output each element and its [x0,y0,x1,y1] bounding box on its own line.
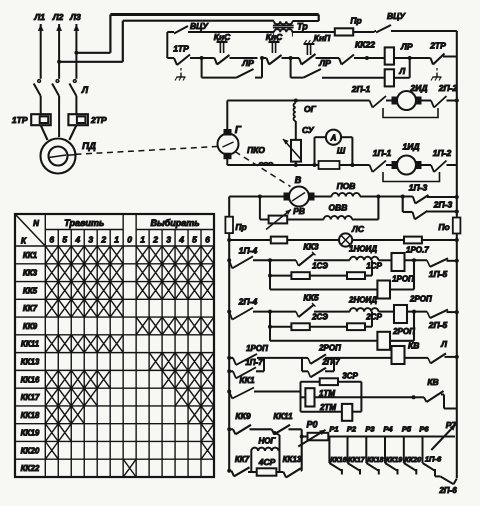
svg-text:К: К [21,236,27,246]
svg-text:Р5: Р5 [402,425,412,434]
svg-text:РВ: РВ [293,206,305,216]
svg-text:1ИД: 1ИД [403,142,420,152]
svg-text:Пр: Пр [350,16,361,26]
svg-text:Р6: Р6 [419,425,429,434]
svg-text:2П-1: 2П-1 [351,84,371,94]
svg-text:1ТР: 1ТР [173,44,189,54]
svg-text:КК16: КК16 [21,375,40,384]
svg-text:1: 1 [140,235,145,245]
svg-text:КК7: КК7 [23,304,38,313]
svg-text:ВЦУ: ВЦУ [387,11,406,21]
svg-text:Тр: Тр [297,22,308,32]
svg-text:Г: Г [235,125,242,136]
svg-text:КК1: КК1 [239,375,254,385]
svg-text:ВЦУ: ВЦУ [190,21,209,31]
svg-text:2: 2 [152,235,158,245]
svg-text:КК19: КК19 [21,429,40,438]
svg-text:Р3: Р3 [365,425,375,434]
svg-text:Р0: Р0 [306,420,317,430]
svg-text:0: 0 [127,235,132,245]
svg-text:2ИД: 2ИД [410,83,428,93]
svg-text:ПКО: ПКО [247,145,265,155]
svg-text:КК3: КК3 [23,269,38,278]
svg-text:4: 4 [74,235,80,245]
svg-text:КК13: КК13 [21,358,40,367]
svg-text:Р4: Р4 [383,425,393,434]
svg-text:НОГ: НОГ [259,437,277,446]
svg-text:КК19: КК19 [386,457,402,464]
svg-text:КК9: КК9 [235,411,250,421]
svg-text:4: 4 [178,235,184,245]
svg-text:1НОИД: 1НОИД [349,245,377,254]
svg-text:Пр: Пр [235,222,246,232]
svg-text:1РОП: 1РОП [392,275,414,284]
svg-text:N: N [33,219,39,228]
svg-text:Р1: Р1 [329,425,338,434]
svg-text:1РОП: 1РОП [246,344,268,353]
svg-text:Ш: Ш [337,146,346,156]
svg-text:1П-1: 1П-1 [373,148,392,158]
svg-text:2: 2 [100,235,106,245]
svg-text:2П-5: 2П-5 [428,320,448,330]
svg-text:6: 6 [49,235,54,245]
svg-text:ПД: ПД [82,141,96,152]
svg-text:2СЭ: 2СЭ [311,313,328,322]
svg-text:КК20: КК20 [405,457,421,464]
svg-text:2РОП: 2РОП [409,295,432,304]
svg-text:1П-3: 1П-3 [409,183,428,193]
svg-text:Л: Л [440,339,447,349]
svg-text:4СР: 4СР [258,457,276,467]
svg-text:КК7: КК7 [235,455,250,464]
svg-text:2НОИД: 2НОИД [348,296,377,305]
svg-text:ЛР: ЛР [241,58,254,68]
svg-text:Л: Л [398,66,405,76]
svg-text:2П-3: 2П-3 [433,200,453,210]
svg-text:Л2: Л2 [52,12,64,22]
svg-text:КнП: КнП [314,33,331,43]
svg-text:В: В [295,175,302,185]
svg-text:КК9: КК9 [23,322,38,331]
svg-text:КК13: КК13 [283,455,302,464]
svg-text:5: 5 [192,235,197,245]
svg-text:КнС: КнС [214,32,231,42]
svg-text:КВ: КВ [408,341,419,351]
svg-text:1П-6: 1П-6 [425,455,442,464]
svg-text:ОВВ: ОВВ [329,203,348,213]
svg-text:Л1: Л1 [33,12,45,22]
svg-text:Р2: Р2 [347,425,357,434]
svg-text:КК3: КК3 [303,242,318,252]
svg-text:СУ: СУ [302,125,315,135]
svg-text:КВ: КВ [427,377,438,387]
svg-text:КК11: КК11 [21,340,40,349]
svg-text:2П-4: 2П-4 [238,297,258,307]
svg-text:2СР: 2СР [365,313,382,322]
svg-text:1РО.7: 1РО.7 [406,246,429,255]
svg-text:КК5: КК5 [23,286,38,295]
svg-text:1П-7: 1П-7 [245,358,263,367]
svg-text:КК16: КК16 [330,457,346,464]
svg-text:6: 6 [205,235,210,245]
svg-text:ЛР: ЛР [318,58,331,68]
svg-text:3: 3 [166,235,171,245]
svg-text:2РОП: 2РОП [392,327,415,336]
svg-text:КК18: КК18 [367,457,383,464]
svg-text:КК17: КК17 [348,457,365,464]
svg-text:КК18: КК18 [21,411,40,420]
svg-text:2П-2: 2П-2 [438,83,458,93]
svg-text:1П-4: 1П-4 [239,246,258,256]
svg-text:ЛР: ЛР [400,42,413,52]
svg-text:3СР: 3СР [342,372,358,381]
svg-text:Л3: Л3 [69,12,81,22]
svg-text:КК17: КК17 [21,393,40,402]
svg-text:КК5: КК5 [303,293,318,303]
svg-text:1П-2: 1П-2 [433,148,452,158]
svg-text:КК22: КК22 [355,40,375,50]
svg-text:2ТР: 2ТР [90,115,107,125]
svg-text:По: По [438,222,449,232]
svg-text:КК22: КК22 [21,464,40,473]
svg-text:Выбирать: Выбирать [151,218,200,228]
svg-text:КК11: КК11 [273,411,293,421]
svg-text:Л: Л [81,85,89,95]
svg-text:1: 1 [114,235,119,245]
svg-text:А: А [330,134,337,143]
svg-text:Травить: Травить [64,218,104,228]
svg-text:5: 5 [62,235,67,245]
svg-text:ПОВ: ПОВ [337,181,356,191]
svg-text:1ТР: 1ТР [12,115,28,125]
svg-text:2ТМ: 2ТМ [319,403,336,412]
svg-text:1П-5: 1П-5 [429,269,448,279]
svg-text:3: 3 [88,235,93,245]
svg-text:2РОП: 2РОП [318,344,341,353]
svg-text:2П-6: 2П-6 [438,486,457,495]
svg-text:КнС: КнС [266,32,283,42]
svg-text:КК20: КК20 [21,446,40,455]
svg-text:КК1: КК1 [23,251,38,260]
svg-text:1СР: 1СР [366,262,382,271]
svg-text:ЛС: ЛС [351,224,365,234]
svg-text:2ТР: 2ТР [429,41,446,51]
svg-text:1СЭ: 1СЭ [312,262,328,271]
svg-text:ОГ: ОГ [304,104,317,114]
